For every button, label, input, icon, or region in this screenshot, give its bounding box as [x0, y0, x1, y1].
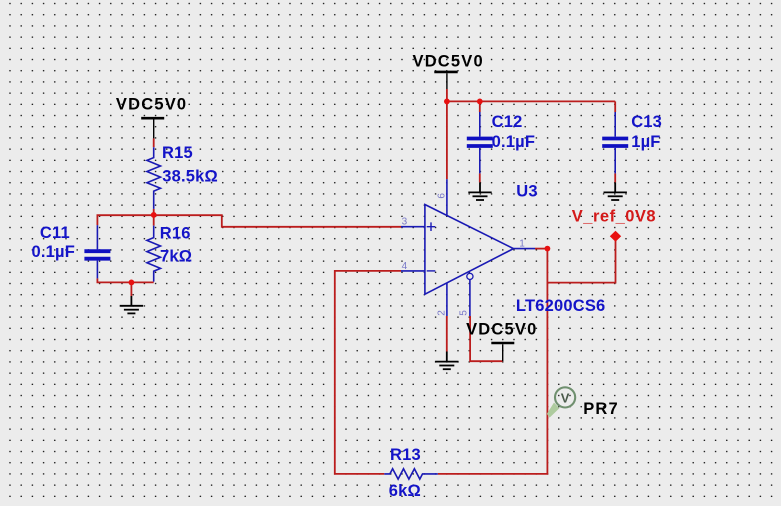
- svg-text:3: 3: [402, 217, 408, 228]
- op-amp U3: [425, 205, 514, 295]
- resistor R16: [147, 225, 192, 282]
- svg-text:C11: C11: [40, 224, 70, 242]
- svg-text:2: 2: [436, 310, 447, 316]
- wire: [447, 89, 615, 101]
- wire: [446, 316, 448, 352]
- junction dot: [151, 212, 157, 218]
- ground: [604, 182, 627, 200]
- power VDC5V0 3: [466, 321, 537, 362]
- svg-text:0.1µF: 0.1µF: [492, 133, 536, 151]
- pin 6: [437, 179, 448, 215]
- junction dot: [545, 246, 551, 252]
- wire: [97, 278, 153, 282]
- svg-text:VDC5V0: VDC5V0: [466, 321, 537, 339]
- wire: [535, 248, 547, 250]
- svg-text:R15: R15: [162, 144, 193, 162]
- svg-text:U3: U3: [516, 183, 538, 201]
- wire: [614, 101, 616, 112]
- wire: [130, 282, 132, 296]
- svg-text:1µF: 1µF: [631, 133, 660, 151]
- svg-text:VDC5V0: VDC5V0: [412, 52, 483, 70]
- wire: [614, 173, 616, 182]
- wire: [153, 209, 155, 226]
- svg-text:7kΩ: 7kΩ: [160, 247, 192, 265]
- svg-text:V_ref_0V8: V_ref_0V8: [572, 208, 656, 226]
- pin 5: [459, 280, 470, 317]
- wire: [470, 316, 503, 361]
- pin 1: [514, 238, 536, 249]
- svg-text:5: 5: [459, 310, 470, 316]
- capacitor C11: [32, 224, 111, 279]
- pin 2: [436, 283, 447, 316]
- svg-text:R16: R16: [160, 225, 191, 243]
- wire: [446, 101, 448, 179]
- svg-text:4: 4: [402, 261, 408, 272]
- wire: [97, 215, 153, 225]
- junction dot: [129, 280, 135, 286]
- wire: [479, 173, 481, 182]
- wire: [547, 241, 615, 283]
- svg-text:1: 1: [519, 238, 525, 249]
- ground: [120, 296, 143, 313]
- power VDC5V0 1: [116, 96, 187, 139]
- wire: [153, 138, 155, 147]
- resistor R15: [147, 144, 218, 209]
- capacitor C12: [467, 112, 535, 173]
- svg-text:PR7: PR7: [583, 400, 619, 418]
- pin 3: [401, 217, 425, 228]
- svg-text:R13: R13: [390, 446, 421, 464]
- svg-text:C13: C13: [631, 113, 662, 131]
- junction dot: [444, 99, 450, 105]
- svg-text:LT6200CS6: LT6200CS6: [516, 297, 606, 315]
- wire: [335, 271, 401, 474]
- svg-text:38.5kΩ: 38.5kΩ: [162, 167, 218, 185]
- wire: [438, 249, 548, 474]
- ground: [435, 352, 458, 370]
- junction dot: [477, 99, 483, 105]
- svg-text:V: V: [561, 390, 570, 405]
- capacitor C13: [602, 112, 662, 173]
- net V_ref_0V8: [572, 208, 656, 242]
- svg-text:6kΩ: 6kΩ: [389, 482, 421, 500]
- svg-text:0.1µF: 0.1µF: [32, 243, 76, 261]
- wire: [154, 215, 401, 227]
- svg-text:C12: C12: [492, 113, 523, 131]
- wire: [479, 101, 481, 112]
- svg-text:VDC5V0: VDC5V0: [116, 96, 187, 114]
- power VDC5V0 2: [412, 52, 483, 89]
- ground: [468, 182, 491, 200]
- probe PR7: [547, 387, 619, 418]
- resistor R13: [384, 446, 438, 500]
- pin 4: [401, 261, 425, 272]
- svg-text:6: 6: [437, 193, 448, 199]
